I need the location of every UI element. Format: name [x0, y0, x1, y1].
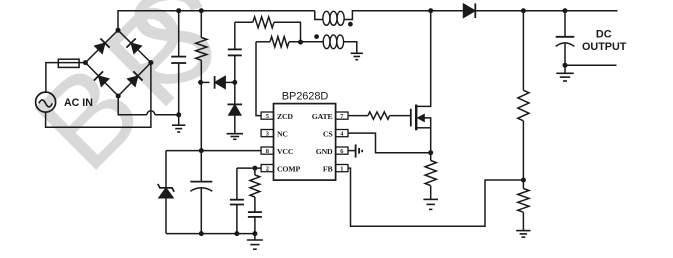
resistor R5 (gate)	[368, 112, 390, 119]
pin box left 2	[261, 165, 273, 172]
ground (bottom rail)	[254, 234, 256, 240]
diode D7 (rail, points right)	[463, 3, 475, 18]
node VCC junction	[199, 148, 204, 153]
node C6/rail junction	[563, 8, 568, 13]
node C1/rail junction	[176, 8, 181, 13]
svg-text:VCC: VCC	[277, 147, 294, 156]
svg-text:1: 1	[340, 165, 343, 172]
capacitor C2 (VCC electrolytic)	[190, 181, 212, 183]
wire CS	[348, 133, 431, 153]
op IC U1 BP2628D	[274, 104, 336, 181]
node D5/C3	[232, 80, 237, 85]
capacitor C4 (comp)	[236, 168, 238, 200]
node COMP junction	[252, 166, 257, 171]
svg-text:ZCD: ZCD	[277, 112, 293, 121]
pin box left 8	[261, 147, 273, 154]
wire GND pin	[348, 150, 355, 152]
wire aux to ground	[344, 42, 357, 54]
resistor R6 (sense)	[430, 153, 432, 161]
diode D5 (points left)	[215, 76, 226, 89]
svg-text:COMP: COMP	[277, 164, 300, 173]
resistor R8 (lower divider)	[518, 189, 529, 213]
svg-text:DC: DC	[596, 28, 612, 40]
node output-	[563, 63, 568, 68]
phase dot L1	[348, 22, 353, 27]
svg-text:GATE: GATE	[312, 112, 333, 121]
wire output bottom rail	[565, 64, 617, 66]
capacitor C5 (comp)	[254, 197, 256, 212]
bridge diode D4 (bottom-right)	[127, 71, 143, 87]
resistor R1 (startup)	[200, 11, 202, 38]
node aux	[298, 40, 303, 45]
ground (output)	[564, 65, 566, 73]
resistor R7 (upper divider)	[522, 11, 524, 91]
node C5/ground rail	[252, 231, 257, 236]
node R7/rail junction	[521, 8, 526, 13]
node C4/rail	[234, 231, 239, 236]
wire FB	[348, 168, 523, 226]
ground (divider)	[516, 230, 530, 232]
capacitor C6 (output)	[564, 11, 566, 37]
ground (GND pin, sideways)	[355, 144, 357, 157]
pin box left 5	[261, 112, 273, 119]
wire bottom rail	[166, 233, 255, 235]
node C2/rail	[199, 231, 204, 236]
svg-text:3: 3	[266, 130, 269, 137]
inductor L2 aux winding	[323, 35, 330, 49]
svg-text:2: 2	[266, 165, 269, 172]
ground (bridge)	[178, 115, 180, 125]
wire AC top	[46, 63, 86, 93]
pin box right 7	[336, 112, 348, 119]
svg-text:BP2628D: BP2628D	[282, 90, 329, 102]
node bridge corners	[83, 60, 88, 65]
transistor Q1 (NMOS)	[410, 109, 412, 127]
svg-text:OUTPUT: OUTPUT	[582, 41, 627, 53]
AC source V1	[36, 92, 56, 112]
pin box right 6	[336, 147, 348, 154]
inductor L1 primary	[323, 11, 330, 25]
wire VCC	[166, 150, 261, 152]
resistor R3 (lower ZCD)	[256, 41, 270, 43]
node R1/rail junction	[199, 8, 204, 13]
svg-text:AC IN: AC IN	[64, 97, 93, 109]
capacitor C1 (bulk)	[178, 11, 180, 57]
svg-text:CS: CS	[323, 129, 333, 138]
bridge rectifier BD1	[85, 30, 118, 62]
bridge diode D2 (right-top)	[126, 38, 142, 54]
wire AC bottom	[46, 63, 151, 128]
fuse F1	[58, 59, 79, 67]
bridge diode D1 (left-top)	[94, 38, 110, 54]
wire bridge negative jog	[118, 96, 147, 115]
ground (aux)	[351, 52, 363, 54]
pin box right 4	[336, 130, 348, 137]
diode D6 (to ground, points up)	[234, 82, 236, 103]
resistor R2 (upper ZCD)	[235, 21, 253, 23]
svg-text:FB: FB	[323, 164, 333, 173]
node FB divider	[521, 178, 526, 183]
pin box right 1	[336, 165, 348, 172]
svg-text:NC: NC	[277, 129, 288, 138]
svg-text:5: 5	[266, 113, 269, 120]
wire top rail left	[118, 11, 315, 31]
bridge diode D3 (bottom-left)	[94, 71, 110, 87]
node CS	[428, 150, 433, 155]
svg-text:8: 8	[266, 148, 269, 155]
capacitor C3	[234, 22, 236, 49]
wire after L1	[344, 11, 617, 20]
wire hop over AC return	[147, 111, 155, 115]
wire COMP	[237, 167, 261, 169]
zener Z1	[165, 151, 167, 188]
svg-text:S: S	[117, 0, 224, 116]
wire GATE	[348, 115, 368, 117]
pin box left 3	[261, 130, 273, 137]
node drain/rail junction	[428, 8, 433, 13]
node DC-	[176, 112, 181, 117]
ground (D6)	[227, 133, 243, 135]
node R1/D5	[198, 80, 203, 85]
wire rail step to inductor	[315, 11, 323, 20]
phase dot L2	[314, 34, 319, 39]
ground (sense)	[423, 198, 438, 200]
svg-text:GND: GND	[316, 147, 333, 156]
resistor R4 (comp)	[254, 168, 256, 175]
wire ZCD	[256, 42, 261, 116]
wire VCC charge branch	[201, 81, 210, 83]
